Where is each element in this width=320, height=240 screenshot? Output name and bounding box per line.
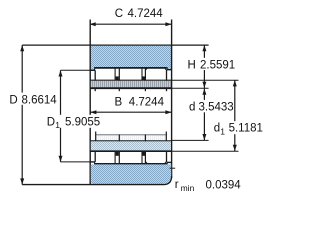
top row: left lip line	[94, 70, 96, 91]
svg-text:1: 1	[220, 127, 225, 137]
bottom half: split lines through inner band	[119, 134, 145, 151]
dimension D1 vertical line with arrows	[59, 70, 63, 162]
svg-text:0.0394: 0.0394	[206, 179, 242, 191]
outer ring bottom section (hatched blue block, rounded lower corners)	[91, 164, 171, 184]
outer ring top: bottom face lines	[90, 67, 171, 70]
dimension d: bottom extension line (bore bottom, continues band line right)	[172, 139, 209, 141]
outer ring top section (hatched blue block)	[91, 46, 172, 70]
dimension D1: extension lines	[61, 69, 91, 71]
svg-text:3.5433: 3.5433	[199, 101, 234, 113]
svg-text:4.7244: 4.7244	[128, 8, 164, 20]
dimension d1: extension lines (band top / band bottom continue right)	[172, 79, 239, 81]
top row cage bar 1	[115, 68, 119, 91]
inner ring bottom section (hatched band)	[90, 141, 171, 151]
svg-text:1: 1	[55, 120, 60, 130]
top row roller chamfers	[145, 69, 166, 71]
bottom row: left lip line	[94, 152, 96, 162]
svg-text:D: D	[47, 116, 55, 128]
left side face of bearing (runs whole height, also B extension line)	[89, 20, 91, 185]
outer ring bottom: top face lines	[90, 162, 171, 165]
dimension H: bottom extension line (bore top, continues band line right)	[172, 87, 209, 89]
outer ring bottom: right rounded corner outline	[163, 176, 171, 184]
dimension D label (with halo over line)	[7, 93, 61, 105]
bottom row: right lip line	[166, 152, 168, 162]
dimension d1 vertical line with arrows	[233, 80, 237, 151]
dimension D vertical line with arrows	[20, 45, 24, 185]
dimension d1 label (with halo)	[212, 121, 266, 134]
top row: right lip line	[166, 70, 168, 92]
svg-text:C: C	[115, 8, 123, 20]
svg-text:d: d	[189, 101, 195, 113]
svg-text:H: H	[188, 59, 196, 71]
svg-text:min: min	[181, 183, 195, 193]
dimension B line with arrows	[90, 110, 171, 114]
dimension C: extension already at faces; dimension line	[90, 22, 172, 26]
dimension H label (with halo)	[186, 58, 241, 70]
svg-text:D: D	[9, 94, 17, 106]
svg-text:8.6614: 8.6614	[22, 94, 58, 106]
svg-text:2.5591: 2.5591	[200, 59, 235, 71]
svg-text:5.9055: 5.9055	[65, 116, 100, 128]
right side face of bearing (runs to lower rounded corner, also B/C extension)	[171, 20, 173, 179]
dimension D1 label (with halo)	[45, 115, 104, 128]
svg-text:5.1181: 5.1181	[229, 123, 263, 135]
bottom row cage bar 2	[142, 152, 145, 164]
bottom row roller chamfers	[145, 162, 166, 164]
r_min leader tick	[170, 167, 176, 169]
bottom row cage bar 1	[115, 152, 119, 164]
bottom half: sleeve (light band)	[95, 132, 166, 141]
inner ring top section (hatched band)	[90, 80, 171, 88]
svg-text:d: d	[214, 123, 220, 135]
dimension H vertical line with arrows	[202, 45, 206, 88]
svg-text:B: B	[115, 96, 123, 108]
bottom face line of bearing (also D extension line)	[22, 184, 163, 186]
dimension d vertical line with arrows	[202, 89, 206, 141]
dimension d label (with halo)	[187, 100, 234, 112]
svg-text:4.7244: 4.7244	[129, 96, 165, 108]
top face line of bearing (also D and H extension line)	[22, 44, 208, 46]
top row cage bar 2	[142, 68, 145, 91]
svg-text:r: r	[175, 179, 179, 191]
